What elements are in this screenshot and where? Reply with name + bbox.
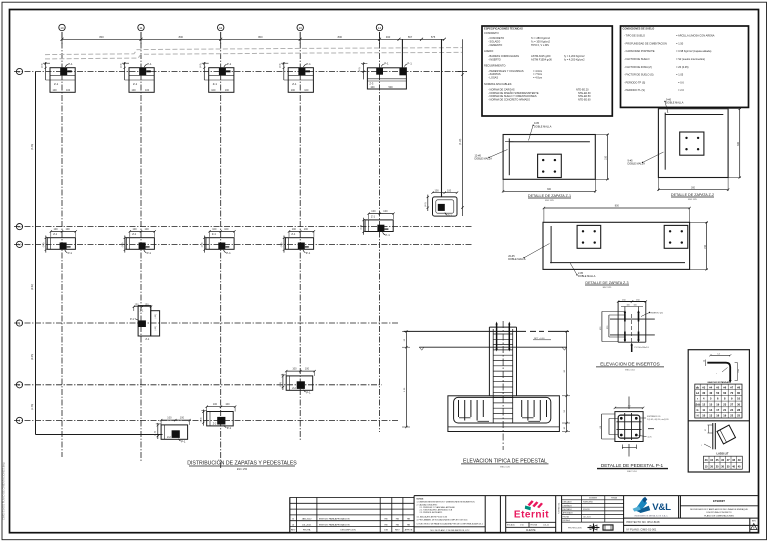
project number rows (624, 517, 758, 519)
svg-text:ESC 1:10: ESC 1:10 (627, 471, 637, 473)
pedestal elevation detail (402, 321, 570, 469)
footing Z-1 grid B/2b (122, 228, 156, 255)
svg-text:100: 100 (435, 189, 440, 192)
svg-text:- PERIODO TP (S): - PERIODO TP (S) (624, 80, 645, 84)
svg-text:Z-1: Z-1 (145, 337, 149, 341)
svg-text:(1.78): (1.78) (31, 404, 34, 410)
svg-text:150: 150 (605, 155, 608, 160)
svg-text:DOBLE MALLA: DOBLE MALLA (666, 102, 684, 105)
pedestal shaft (488, 327, 490, 396)
footing Z-1 grid B/1 (121, 62, 155, 92)
svg-text:REV: REV (395, 530, 400, 532)
right vertical dimension line (458, 39, 467, 216)
grid bubble B (138, 24, 144, 30)
svg-text:FIRMA: FIRMA (611, 497, 617, 500)
grid row 1 line (14, 71, 467, 73)
floor line (419, 346, 566, 348)
svg-text:HB: HB (384, 524, 388, 526)
svg-text:CLIENTE: CLIENTE (526, 530, 536, 532)
grid bubble D (297, 24, 303, 30)
grid line D vertical (299, 32, 301, 440)
svg-text:= Z4 (0.45): = Z4 (0.45) (676, 65, 689, 69)
footing body (448, 396, 560, 432)
footing Z-1 grid C/1 (200, 62, 234, 92)
svg-text:800: 800 (179, 35, 184, 39)
hook table (695, 384, 742, 418)
svg-text:= S2 (suelos intermedios): = S2 (suelos intermedios) (676, 57, 705, 61)
svg-text:575: 575 (431, 35, 436, 39)
plan boundary line bottom (36, 434, 163, 436)
svg-text:Ld: Ld (718, 353, 720, 355)
svg-text:(3.05): (3.05) (31, 354, 34, 360)
svg-text:JUL-21: JUL-21 (543, 524, 549, 526)
grid bubble row4 (16, 382, 22, 388)
svg-text:100: 100 (627, 305, 630, 307)
svg-text:RECUBRIMIENTO:: RECUBRIMIENTO: (484, 64, 506, 68)
footing Z-1 grid A/2b (43, 228, 77, 255)
svg-text:3.1. ANCLAJES: ASTM F1554 Gr.3: 3.1. ANCLAJES: ASTM F1554 Gr.36 (417, 515, 448, 518)
svg-text:5. ELECTRODO DE PARA SOLDADURA: 5. ELECTRODO DE PARA SOLDADURA FTES DE C… (417, 523, 484, 526)
svg-text:N: N (18, 225, 20, 229)
svg-text:ASTM A615 gr60: ASTM A615 gr60 (531, 54, 551, 58)
footing Z-1 grid A/1 (42, 62, 76, 92)
svg-text:Ld: Ld (696, 391, 700, 395)
svg-text:- NORMA DE SUELO Y CIMENTACIO: - NORMA DE SUELO Y CIMENTACIONES (488, 94, 537, 98)
hook diagram (710, 354, 730, 356)
center cross lines (628, 397, 630, 410)
svg-text:- SOLADO: - SOLADO (488, 39, 500, 43)
svg-text:ESC 1/25: ESC 1/25 (688, 199, 697, 201)
svg-text:V&L: V&L (652, 502, 671, 513)
center line (502, 321, 504, 450)
svg-text:P-1: P-1 (407, 62, 412, 66)
svg-text:H: H (697, 414, 699, 418)
svg-text:fy = 4,200 Kg/cm2: fy = 4,200 Kg/cm2 (564, 58, 585, 62)
svg-text:PL 150x150x9.5: PL 150x150x9.5 (635, 347, 650, 349)
svg-text:NPT +0.00: NPT +0.00 (534, 338, 545, 340)
svg-text:12: 12 (219, 26, 223, 30)
top dim (615, 407, 643, 409)
footing Z-1 grid C/2b (202, 228, 236, 255)
svg-text:JUL-2021: JUL-2021 (302, 524, 312, 526)
detail zapata Z-1 (475, 122, 610, 202)
svg-text:800: 800 (99, 35, 104, 39)
crossing slab lines (610, 318, 655, 320)
svg-text:= 7.5cm: = 7.5cm (533, 72, 542, 76)
svg-text:NOTAS:: NOTAS: (417, 497, 424, 500)
svg-text:- CONCRETO: - CONCRETO (488, 36, 504, 40)
svg-text:NTE-E0.20: NTE-E0.20 (576, 87, 589, 91)
svg-text:4. PINT. ANAMEL DE SOLDADURA I: 4. PINT. ANAMEL DE SOLDADURA INCOMPLETO … (417, 518, 468, 521)
svg-text:FECHA: FECHA (303, 529, 311, 532)
svg-text:DETALLE DE ZAPATA Z-3: DETALLE DE ZAPATA Z-3 (585, 281, 628, 285)
svg-text:- TIPO DE SUELO: - TIPO DE SUELO (624, 34, 645, 38)
svg-text:DOBLE MALLA: DOBLE MALLA (508, 258, 526, 261)
svg-text:K: K (19, 383, 21, 387)
svg-text:ETERNIT: ETERNIT (713, 499, 725, 503)
svg-text:DISTRIBUCIÓN DE ZAPATAS Y PEDE: DISTRIBUCIÓN DE ZAPATAS Y PEDESTALES (187, 460, 297, 467)
isolated footing P-1 near dim line (425, 189, 458, 217)
svg-text:APROBADO: APROBADO (563, 512, 574, 515)
left dimension (405, 331, 407, 427)
svg-text:300: 300 (737, 141, 740, 146)
svg-text:CIMG-S1-001 PLANO DE CIMENTACI: CIMG-S1-001 PLANO DE CIMENTACIONES.dwg (2, 462, 6, 520)
svg-text:MODIFICACION Y AMPLIACION DE L: MODIFICACION Y AMPLIACION DE LINEA DE EM… (690, 508, 748, 511)
svg-text:P: P (19, 70, 21, 74)
svg-text:100: 100 (634, 305, 637, 307)
svg-text:f'c = 280 Kg/cm2: f'c = 280 Kg/cm2 (531, 36, 551, 40)
svg-text:FORMATO A1: FORMATO A1 (558, 503, 561, 514)
grid bubble row1 (16, 68, 22, 74)
svg-text:- BARRAS CORRUGADAS: - BARRAS CORRUGADAS (488, 54, 519, 58)
svg-text:ESC 1/25: ESC 1/25 (545, 200, 554, 202)
drop line from dimension to E/1 footing (401, 39, 403, 68)
svg-text:490: 490 (386, 35, 391, 39)
svg-text:NO. DE PLANO Y DE MILIMETROS,: NO. DE PLANO Y DE MILIMETROS, ETC (431, 529, 470, 532)
anchor bolts (497, 324, 510, 350)
svg-text:300: 300 (547, 188, 552, 191)
grid row 2b line (14, 243, 472, 245)
footing Z-2 grid C/5 (200, 403, 236, 430)
svg-text:f'c = 100 Kg/cm2: f'c = 100 Kg/cm2 (531, 39, 551, 43)
insert bolts (625, 312, 639, 342)
svg-text:- CAPACIDAD PORTANTE: - CAPACIDAD PORTANTE (624, 49, 655, 53)
grid row 5 line (14, 419, 399, 421)
svg-text:- NORMA DE CONCRETO ARMADO: - NORMA DE CONCRETO ARMADO (488, 98, 530, 102)
svg-text:H.BRICEÑO: H.BRICEÑO (583, 501, 594, 504)
svg-text:(1.0): (1.0) (359, 67, 361, 72)
svg-text:DOBLE MALLA: DOBLE MALLA (534, 125, 552, 128)
svg-text:NTE-E0.60: NTE-E0.60 (578, 98, 591, 102)
svg-text:TIPO II, V o MS: TIPO II, V o MS (531, 43, 549, 47)
svg-text:HB: HB (407, 519, 411, 521)
svg-text:14: 14 (378, 26, 382, 30)
detail zapata Z-3 long (508, 205, 708, 289)
svg-text:NORMAS APLICABLES:: NORMAS APLICABLES: (484, 82, 512, 86)
svg-text:ESPECIFICACIONES TECNICAS: ESPECIFICACIONES TECNICAS (484, 26, 523, 30)
svg-text:V.LEON: V.LEON (583, 509, 590, 511)
svg-text:NTE-E0.50: NTE-E0.50 (578, 94, 591, 98)
svg-text:db: db (696, 385, 700, 389)
left dim labels (31, 144, 34, 410)
plan boundary line vertical (35, 72, 37, 435)
revision table (290, 498, 414, 533)
svg-text:= ARCILLA LIMOSA CON ARENA: = ARCILLA LIMOSA CON ARENA (676, 34, 715, 38)
svg-text:- NORMA DE CARGAS: - NORMA DE CARGAS (488, 87, 515, 91)
anchor diagram bottom cell (712, 423, 714, 449)
grid line B vertical (140, 32, 142, 461)
svg-text:DISEÑADO: DISEÑADO (563, 504, 573, 507)
svg-text:ELEVACION TIPICA DE PEDESTAL: ELEVACION TIPICA DE PEDESTAL (463, 458, 547, 464)
svg-text:INGENIEROS METALICOS S.A.C.: INGENIEROS METALICOS S.A.C. (634, 514, 668, 517)
svg-text:10: 10 (60, 26, 64, 30)
footing hatch bars (459, 400, 547, 421)
svg-text:EMITIDO PARA APROBACION: EMITIDO PARA APROBACION (319, 518, 350, 521)
svg-text:ESCALA: ESCALA (507, 523, 515, 526)
V&L logo (633, 497, 672, 518)
svg-text:CONDICIONES DE SUELO: CONDICIONES DE SUELO (623, 26, 655, 30)
svg-text:HB: HB (407, 524, 411, 526)
svg-text:INSERTO (4"): INSERTO (4") (651, 313, 664, 315)
svg-text:ACERO:: ACERO: (484, 49, 494, 53)
svg-text:- CEMENTO: - CEMENTO (488, 43, 502, 47)
anchor table (704, 456, 743, 469)
pedestal P-1 section detail (597, 397, 669, 474)
svg-text:PLANO DE CIMENTACIONES: PLANO DE CIMENTACIONES (704, 514, 734, 517)
svg-text:100: 100 (370, 86, 375, 89)
drop line to isolated footing (441, 39, 443, 197)
grid bubble row2a (16, 224, 22, 230)
svg-text:APROB: APROB (405, 529, 413, 532)
svg-text:HB: HB (384, 519, 388, 521)
svg-text:11: 11 (139, 26, 142, 30)
svg-text:DIB: DIB (384, 530, 388, 532)
svg-text:13: 13 (299, 26, 303, 30)
plan title (187, 460, 297, 472)
svg-text:(.05): (.05) (155, 314, 157, 319)
svg-text:- INSERTO: - INSERTO (488, 58, 501, 62)
left dims (601, 414, 603, 439)
svg-text:Lg: Lg (704, 430, 706, 432)
svg-text:ESC 1/25: ESC 1/25 (603, 287, 612, 289)
svg-text:2.3. PERNOS: ASTM A325: 2.3. PERNOS: ASTM A325 (420, 511, 443, 514)
insert elevation detail (596, 299, 664, 371)
svg-text:DESCRIPCION: DESCRIPCION (340, 530, 356, 532)
svg-text:REVISADO: REVISADO (563, 508, 573, 511)
footing Z-1 grid B/3 (portrait) (130, 303, 160, 341)
grid row 2a line (14, 226, 472, 228)
svg-text:DETALLE DE PEDESTAL P-1: DETALLE DE PEDESTAL P-1 (601, 463, 664, 468)
svg-text:= 1.50: = 1.50 (676, 41, 684, 45)
svg-text:(3.92): (3.92) (31, 284, 34, 290)
signature table (562, 496, 624, 522)
grid bubble C (218, 24, 224, 30)
svg-text:fy = 4,200 Kg/cm2: fy = 4,200 Kg/cm2 (564, 54, 585, 58)
svg-text:1. DIMENSIONES EN METROS Y DIM: 1. DIMENSIONES EN METROS Y DIMENSIONES E… (417, 501, 476, 503)
svg-text:1:50: 1:50 (520, 524, 524, 526)
svg-text:500: 500 (389, 86, 394, 89)
svg-text:ESCALA: ESCALA (563, 519, 571, 522)
svg-text:= 0.6: = 0.6 (678, 80, 684, 84)
svg-text:FECHA: FECHA (531, 523, 538, 526)
svg-text:FECHA: FECHA (563, 515, 570, 518)
specifications table (482, 26, 612, 116)
svg-text:567: 567 (408, 35, 413, 39)
svg-text:- PROFUNDIDAD DE CIMENTACION: - PROFUNDIDAD DE CIMENTACION (624, 41, 667, 45)
svg-text:= 4.0cm: = 4.0cm (533, 76, 542, 80)
grid bubble E (376, 24, 382, 30)
svg-text:12db: 12db (738, 369, 740, 373)
svg-text:JUL-2021: JUL-2021 (583, 516, 591, 518)
svg-text:Eternit: Eternit (514, 510, 549, 521)
svg-text:REV: REV (291, 530, 296, 532)
grid row 4 line (14, 384, 382, 386)
svg-text:DETALLE DE ZAPATA Z-2: DETALLE DE ZAPATA Z-2 (671, 193, 714, 197)
svg-text:LADO LIT: LADO LIT (717, 452, 729, 456)
svg-text:150: 150 (704, 244, 707, 249)
svg-text:ASTM F1554 gr36: ASTM F1554 gr36 (531, 58, 552, 62)
bottom dim (621, 445, 623, 450)
svg-text:2. CALIDAD DE ACERO:: 2. CALIDAD DE ACERO: (417, 504, 439, 507)
svg-text:- LOSAS: - LOSAS (488, 76, 498, 80)
footing Z-2 offset at boundary (155, 417, 191, 444)
svg-text:r: r (697, 397, 698, 401)
grid line C vertical (220, 32, 222, 468)
svg-text:ELEVACION DE INSERTOS: ELEVACION DE INSERTOS (600, 361, 659, 366)
NPT label (533, 339, 551, 341)
svg-text:PROYECTO NO. IPC2-5108: PROYECTO NO. IPC2-5108 (627, 520, 661, 524)
svg-text:DOBLE MALLA: DOBLE MALLA (475, 158, 493, 161)
right dimension (566, 331, 568, 431)
svg-text:- FACTOR DE ZONA (Z): - FACTOR DE ZONA (Z) (624, 65, 652, 69)
grid row 3 line (14, 322, 399, 324)
svg-text:HB: HB (396, 519, 400, 521)
ground line (404, 330, 526, 332)
svg-text:= 0.98 Kg/cm2 (zapata aislada): = 0.98 Kg/cm2 (zapata aislada) (676, 49, 711, 53)
notes cell (417, 497, 484, 532)
right title cell (680, 505, 757, 507)
svg-text:Z-3: Z-3 (369, 81, 373, 85)
left dims (601, 312, 603, 342)
footing Z-1 grid D/1 (280, 62, 314, 92)
svg-text:DISCIPLINA CONCRETO: DISCIPLINA CONCRETO (706, 511, 731, 514)
grid bubble row3 (16, 320, 22, 326)
svg-text:(.05): (.05) (155, 326, 157, 331)
grid bubble A (59, 24, 65, 30)
svg-text:#: # (701, 445, 702, 447)
svg-text:GANCHO ESTANDAR: GANCHO ESTANDAR (707, 381, 730, 384)
svg-text:N° PLANO: CIMG-S1-001: N° PLANO: CIMG-S1-001 (627, 527, 657, 531)
svg-text:(7.19): (7.19) (459, 139, 462, 145)
svg-text:ESC 1:25: ESC 1:25 (500, 467, 510, 469)
svg-text:DETALLE DE ZAPATA Z-1: DETALLE DE ZAPATA Z-1 (528, 194, 571, 198)
svg-text:1@.05, 4@.10, rto@.20: 1@.05, 4@.10, rto@.20 (647, 418, 669, 421)
svg-text:- PEDESTALES Y COLUMNAS: - PEDESTALES Y COLUMNAS (488, 69, 524, 73)
svg-text:NTE-E0.30: NTE-E0.30 (578, 91, 591, 95)
legend box (688, 350, 749, 472)
svg-text:ESC 1/50: ESC 1/50 (237, 468, 248, 471)
existing-structure wavy lines (45, 48, 462, 59)
svg-text:- PERIODO TL (S): - PERIODO TL (S) (624, 88, 645, 92)
svg-text:800: 800 (338, 35, 343, 39)
svg-text:P-1: P-1 (130, 317, 135, 321)
top dimension line (61, 32, 446, 44)
title block outline (290, 496, 758, 533)
svg-text:300: 300 (691, 187, 696, 190)
grid line E vertical (379, 32, 381, 432)
svg-text:800: 800 (258, 35, 263, 39)
svg-text:(1.0): (1.0) (425, 202, 427, 207)
center vertical dash (631, 314, 633, 344)
footing Z-1 grid D/2b (281, 228, 315, 255)
svg-text:- FACTOR DE SUELO (S): - FACTOR DE SUELO (S) (624, 73, 654, 77)
svg-text:PROYECCION: PROYECCION (568, 528, 582, 530)
svg-text:800: 800 (615, 205, 620, 208)
svg-text:NOMBRE: NOMBRE (589, 498, 598, 500)
svg-text:P-1: P-1 (384, 62, 389, 66)
soil conditions table (621, 26, 749, 107)
detail zapata Z-2 (628, 98, 742, 200)
svg-text:ESC 1:10: ESC 1:10 (625, 369, 635, 371)
svg-text:12db: 12db (694, 402, 700, 406)
svg-text:= 1.05: = 1.05 (676, 73, 684, 77)
footing Z-1 grid E/2a (361, 210, 395, 237)
svg-text:db: db (703, 361, 705, 363)
svg-text:- ZAPATAS: - ZAPATAS (488, 72, 501, 76)
svg-text:P-1: P-1 (448, 214, 453, 218)
svg-text:HB: HB (396, 524, 400, 526)
svg-text:DOBLE MALLA: DOBLE MALLA (578, 275, 596, 278)
svg-text:= 2.0: = 2.0 (678, 88, 684, 92)
footing Z-3 double, grid E/1 (359, 62, 412, 89)
svg-text:CONCRETO:: CONCRETO: (484, 31, 500, 35)
svg-text:- FACTOR DE SUELO: - FACTOR DE SUELO (624, 57, 649, 61)
svg-text:JAN-2022: JAN-2022 (302, 518, 313, 521)
svg-text:DIBUJADO: DIBUJADO (563, 501, 573, 504)
footing Z-2 grid D/4 (280, 368, 316, 395)
grid bubble row5 (16, 417, 22, 423)
leader (649, 312, 650, 313)
svg-text:(7.48): (7.48) (31, 144, 34, 150)
svg-text:100: 100 (447, 189, 452, 192)
svg-text:EMITIDO PARA APROBACION: EMITIDO PARA APROBACION (319, 523, 350, 526)
svg-text:G: G (696, 408, 698, 412)
grid line A vertical (61, 32, 63, 457)
Eternit logo (506, 500, 556, 532)
grid bubble row2b (16, 241, 22, 247)
svg-text:= 4.0cm: = 4.0cm (533, 69, 542, 73)
